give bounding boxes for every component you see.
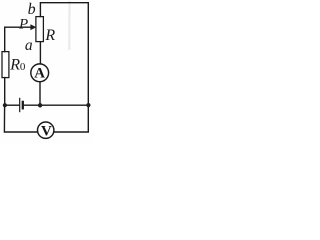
svg-text:0: 0: [20, 61, 26, 73]
junction node dot left (battery node): [3, 103, 7, 107]
wiper arrowhead: [30, 24, 36, 30]
svg-text:R: R: [44, 27, 55, 44]
wire bottom-left: battery node down to bottom-left corner, right to voltmeter: [4, 105, 37, 132]
wire ammeter-to-battery-row: [39, 82, 41, 106]
wiper arrow shaft P: [5, 26, 33, 28]
battery long plate (positive): [19, 98, 21, 111]
resistor R (potentiometer body): [36, 17, 44, 42]
svg-text:a: a: [25, 37, 33, 54]
wire top: from potentiometer top up and right, down right edge to bottom-right, left to voltmeter: [40, 3, 88, 132]
svg-text:R: R: [9, 56, 20, 73]
junction node dot right: [86, 103, 90, 107]
svg-text:A: A: [34, 65, 45, 81]
battery short thick plate (negative): [22, 102, 24, 108]
junction node dot middle (ammeter to battery row): [38, 103, 42, 107]
svg-text:V: V: [41, 123, 52, 139]
wire left lower: R0 bottom down to battery node: [4, 78, 6, 106]
wire battery row: node to plates and across to right node: [5, 104, 19, 106]
resistor R0 body: [2, 52, 9, 78]
svg-text:P: P: [18, 16, 28, 32]
ammeter A circle: [31, 64, 49, 82]
svg-text:b: b: [28, 1, 36, 18]
wire a-to-ammeter: potentiometer bottom to ammeter top: [39, 42, 41, 64]
voltmeter V circle: [38, 122, 54, 138]
wire wiper-left: from arrow corner down left edge to R0 top: [4, 27, 6, 51]
